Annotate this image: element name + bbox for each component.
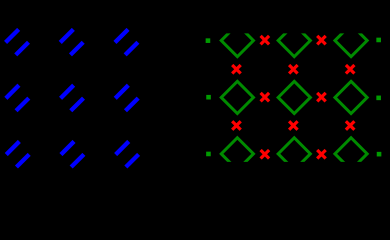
cross (r3,mid2) xyxy=(317,150,326,159)
diamond (1,2) xyxy=(278,24,310,56)
diamond (2,3) xyxy=(335,81,367,113)
dimer (2,1) xyxy=(6,85,29,111)
cross (r1,mid2) xyxy=(317,36,326,45)
cross (r2,mid1) xyxy=(261,93,270,102)
dimer (3,2) xyxy=(61,141,84,167)
site dot right r2 xyxy=(376,96,381,101)
dimer (1,2) xyxy=(60,29,83,55)
cross (r3,mid1) xyxy=(261,150,270,159)
dimer (2,2) xyxy=(61,85,84,111)
cross (r1,mid1) xyxy=(261,36,270,45)
site dot left r3 xyxy=(206,152,211,157)
diamond (1,1) xyxy=(221,24,253,56)
dimer (1,1) xyxy=(6,29,29,55)
cross (c2,mida) xyxy=(289,65,298,74)
dimer (3,1) xyxy=(6,141,29,167)
diamond (2,2) xyxy=(278,81,310,113)
site dot right r1 xyxy=(376,38,381,43)
cross (c3,mida) xyxy=(346,65,355,74)
site dot left r2 xyxy=(206,95,211,100)
cross (c3,midb) xyxy=(346,121,355,130)
diamond (1,3) xyxy=(335,24,367,56)
diamond (3,2) xyxy=(278,138,310,170)
site dot right r3 xyxy=(377,152,382,157)
dimer (2,3) xyxy=(115,85,138,111)
cross (c2,midb) xyxy=(289,121,298,130)
dimer (3,3) xyxy=(116,141,139,167)
cross (r2,mid2) xyxy=(317,93,326,102)
site dot left r1 xyxy=(206,38,211,43)
dimer (1,3) xyxy=(115,29,138,55)
diamond (2,1) xyxy=(221,81,253,113)
diamond (3,1) xyxy=(221,138,253,170)
cross (c1,mida) xyxy=(232,65,241,74)
cross (c1,midb) xyxy=(232,121,241,130)
diamond (3,3) xyxy=(335,138,367,170)
